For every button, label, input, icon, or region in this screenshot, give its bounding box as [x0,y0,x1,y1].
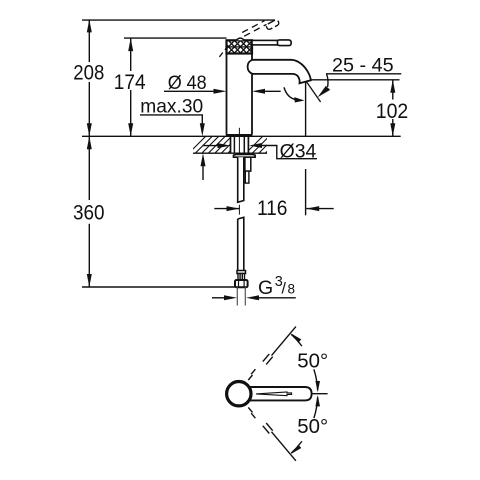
arrow G38 right [246,295,259,300]
svg-text:360: 360 [73,202,105,225]
O34 leader elbow [260,146,317,159]
G3/8 nut [235,280,248,287]
dimension texts [73,55,408,225]
arrow 208 bottom [87,123,92,136]
countertop top line [82,135,401,137]
svg-text:102: 102 [376,100,409,123]
arrowheads [87,19,396,300]
svg-text:25 - 45: 25 - 45 [332,55,394,77]
spout rotation arc arrow [284,87,296,99]
shank tube edges [233,136,235,153]
mounting hole edges [230,136,232,153]
svg-text:Ø 48: Ø 48 [168,73,207,94]
cartridge (hatched block) [222,40,259,54]
faucet base bar [226,134,253,136]
flow direction diagonal [306,81,321,102]
svg-text:50°: 50° [297,350,328,372]
svg-text:174: 174 [114,71,146,94]
arrow 102 bottom [390,123,395,136]
arrow 360 top [87,136,92,149]
underline 25-45 [326,73,401,75]
supply hose lower segment [238,217,244,270]
arrow 174 bottom [128,123,133,136]
spout outline [248,60,311,84]
arrow 25-45 leader [318,86,331,97]
extension line 360 bottom [82,286,235,288]
arrow 360 bottom [87,274,92,287]
extension line cartridge top level [124,37,227,39]
50 deg arc lower [291,397,317,453]
dashed lever position upper [248,327,296,380]
vertical extension line from spout outlet down [305,81,307,137]
dimension 174 line [130,38,132,71]
countertop bottom line [193,152,267,154]
svg-text:Ø34: Ø34 [280,140,317,162]
extension line spout outlet level [306,79,400,81]
dimension 116 line left [214,208,239,210]
dimension 102 line [392,80,394,100]
dimension 208 line [88,19,90,62]
arrow 116 right [306,206,319,211]
arrow G38 left [224,295,237,300]
arrow max30 up [201,153,206,166]
svg-text:G: G [258,277,273,299]
connector block lower [245,171,249,183]
arrow 174 top [128,38,133,51]
dashed raised lever paddle [266,19,280,30]
arrow O34 right-pointing [218,143,231,148]
svg-text:50°: 50° [297,416,328,438]
G3/8 arrow line right [257,297,296,299]
max.30 underline and leader [140,115,202,124]
centerline through body/shank [238,128,240,154]
centerline at 116 [238,205,240,215]
25-45 leader curve [327,74,329,87]
arrow O48 right-pointing [214,89,227,94]
svg-text:/: / [282,281,287,298]
arc arrowheads at centerline [315,381,320,392]
faucet body right edge upper [251,54,253,60]
washer under counter [234,154,256,157]
supply hose upper segment [238,157,244,202]
arrow max30 down [200,123,205,136]
arc arrowhead lower end [292,445,302,454]
50 deg arc upper [291,334,317,390]
centerline right of bar [312,393,328,395]
lever paddle [278,40,292,46]
faucet body right edge lower [251,74,253,134]
svg-text:max.30: max.30 [140,97,203,118]
arrow 102 top [390,80,395,93]
text G3/8 [258,274,295,299]
dashed lever rear end [219,45,228,57]
arrow 208 top [87,19,92,32]
arc arrowhead upper end [292,334,302,343]
dashed lever position lower [248,407,296,460]
body circle top view [227,382,251,406]
hose ribbed section [238,274,245,281]
O34 left arrow tail [203,145,220,147]
dimension 360 line [88,136,90,200]
svg-text:8: 8 [288,282,296,297]
dimension 116 line right [306,208,334,210]
arrow O34 left-pointing [249,143,262,148]
svg-text:116: 116 [257,197,288,220]
svg-text:208: 208 [73,61,104,84]
connector block upper [245,157,251,171]
arrow 116 left [227,206,240,211]
dashed raised lever shaft [242,21,266,37]
arrow O48 left-pointing [252,89,265,94]
max.30 lower arrow tail [202,165,204,180]
hose crimp collar [237,271,246,274]
countertop hatched left band [186,134,247,156]
O48 right arrow tail [264,90,281,92]
lever bar [252,40,279,45]
spout rotation arrowhead [294,97,304,102]
leader O48 [164,90,215,92]
faucet body left edge [226,54,228,135]
lever bar top view [247,387,312,400]
dome cap on cartridge [236,38,244,40]
G3/8 arrow line left [212,297,226,299]
countertop hatched right band [243,134,285,156]
threaded tail [236,287,238,305]
extension line top (lever raised tip level) [82,19,275,21]
lever slot detail [256,392,292,396]
